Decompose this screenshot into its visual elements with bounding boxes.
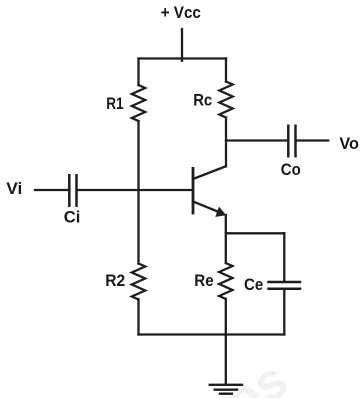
label Vi [6, 179, 22, 198]
wire input from Ci to base (through node at left branch) [78, 189, 192, 191]
capacitor Co [288, 126, 295, 156]
transistor Q1 emitter lead [193, 202, 220, 213]
label R1 [106, 94, 123, 113]
wire output (Co to Vo) [297, 139, 329, 141]
label Ce [244, 275, 263, 294]
label R2 [105, 271, 125, 290]
wire input from Vi to capacitor Ci [35, 189, 68, 191]
wire emitter lower (Re to bottom rail) [225, 299, 227, 335]
label Co [281, 160, 301, 179]
wire ground stem [225, 335, 227, 385]
resistor R2 [132, 264, 145, 300]
svg-text:R2: R2 [105, 271, 125, 290]
resistor R1 [132, 85, 145, 121]
svg-text:R1: R1 [106, 94, 123, 113]
transistor Q1 base bar [192, 168, 195, 213]
svg-text:Ce: Ce [244, 275, 263, 294]
svg-text:Ci: Ci [64, 207, 81, 226]
transistor Q1 emitter arrowhead [215, 207, 226, 217]
wire Ce branch upper [283, 233, 285, 280]
wire middle branch (Rc to collector, through output node) [225, 118, 227, 167]
wire emitter vertical (arrow to Re, through Re/Ce node) [225, 215, 227, 263]
wire output (collector node to Co) [226, 139, 287, 141]
svg-text:Co: Co [281, 160, 301, 179]
label Ci [64, 207, 81, 226]
wire left branch lower (R2 to bottom rail) [137, 300, 139, 335]
svg-text:+ Vcc: + Vcc [161, 3, 201, 22]
wire left branch upper (rail to R1) [137, 59, 139, 86]
transistor Q1 collector lead [193, 166, 226, 179]
wire Vcc stem [181, 29, 183, 61]
capacitor Ci [69, 175, 76, 205]
wire left branch middle (R1 to R2, through input node) [137, 121, 139, 264]
svg-text:Rc: Rc [193, 91, 212, 110]
resistor Rc [219, 82, 232, 118]
label Re [194, 271, 213, 290]
label +Vcc [161, 3, 201, 22]
wire Re/Ce top junction [226, 232, 284, 234]
label Vo [339, 134, 359, 153]
svg-text:Re: Re [194, 271, 213, 290]
ground [210, 385, 242, 394]
svg-text:Vi: Vi [6, 179, 22, 198]
capacitor Ce [269, 282, 301, 289]
watermark [215, 350, 297, 398]
svg-text:ps: ps [215, 350, 297, 398]
wire bottom rail [139, 333, 285, 335]
wire top rail [139, 57, 227, 59]
label Rc [193, 91, 212, 110]
wire middle branch upper (rail to Rc) [225, 59, 227, 82]
wire Ce branch lower [283, 290, 285, 335]
resistor Re [219, 263, 232, 299]
svg-text:Vo: Vo [339, 134, 359, 153]
